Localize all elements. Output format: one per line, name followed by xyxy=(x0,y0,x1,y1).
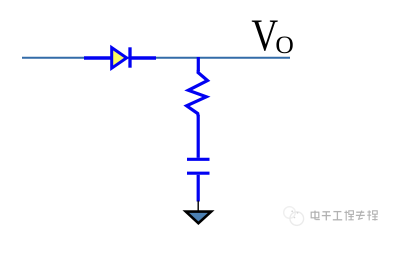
watermark text 工 xyxy=(333,212,342,220)
wire: resistor to capacitor xyxy=(197,115,200,158)
capacitor C1 bottom plate xyxy=(187,172,210,175)
wire: thick anode lead xyxy=(84,56,112,59)
watermark logo dots xyxy=(291,210,298,218)
wire: thin net line from left edge to output, node A xyxy=(22,57,290,59)
watermark text 专 xyxy=(356,211,365,220)
wire: vertical drop from node A to resistor xyxy=(197,57,200,71)
ground xyxy=(186,212,211,224)
capacitor C1 top plate xyxy=(187,158,210,161)
svg-text:O: O xyxy=(275,30,293,59)
wire: capacitor to ground lead xyxy=(197,175,200,202)
diode D1 xyxy=(112,48,127,69)
wire: thick cathode lead xyxy=(130,56,156,59)
watermark logo circle left xyxy=(284,207,296,219)
watermark text 子 xyxy=(322,212,331,221)
diode D1 cathode bar xyxy=(128,47,131,67)
wire: thin black ground stem xyxy=(197,201,199,212)
node label VO : letter V xyxy=(251,10,278,60)
watermark text 电 xyxy=(311,211,320,220)
watermark logo circle right xyxy=(290,212,304,226)
resistor R1 xyxy=(187,70,208,116)
watermark text 程 xyxy=(344,211,353,221)
watermark text 辑 xyxy=(367,210,377,220)
svg-text:V: V xyxy=(251,10,278,60)
